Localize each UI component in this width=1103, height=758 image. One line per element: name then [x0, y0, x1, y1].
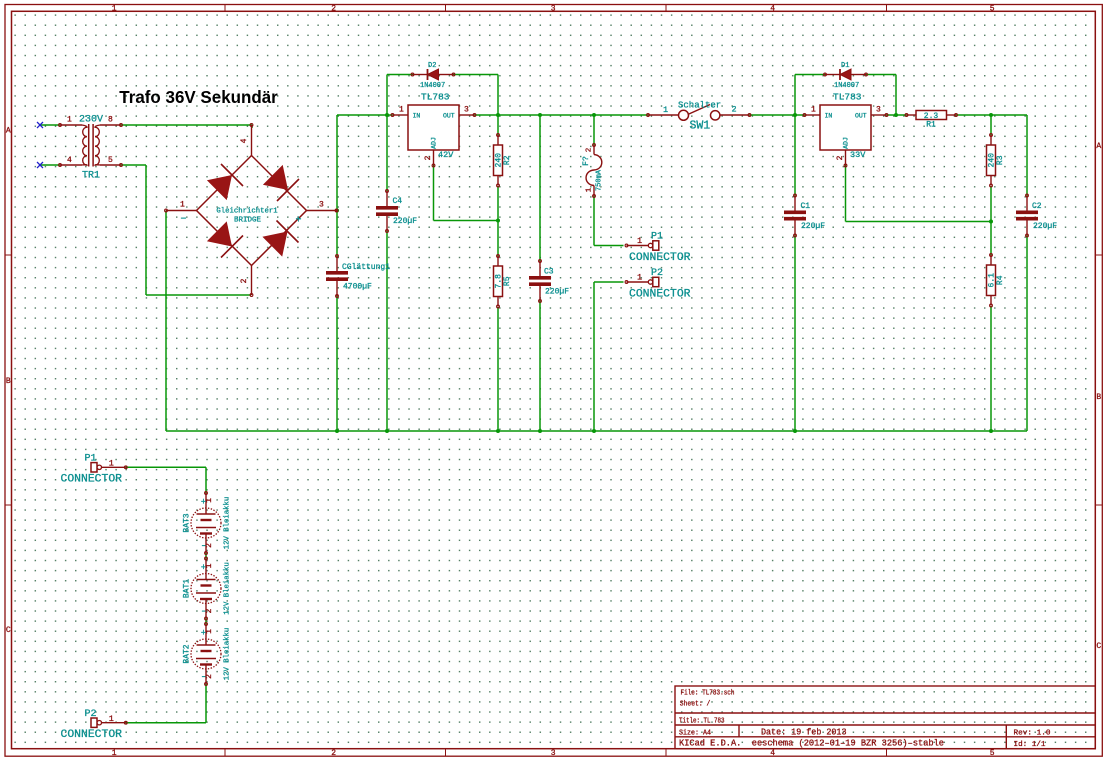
svg-text:5: 5: [108, 156, 113, 165]
junction at 991,431: [989, 429, 993, 433]
svg-text:Sheet: /: Sheet: /: [680, 701, 711, 709]
title block: [675, 686, 1095, 749]
svg-text:KICad E.D.A. eeschema (2012–0: KICad E.D.A. eeschema (2012–01–19 BZR 32…: [679, 739, 944, 749]
svg-text:A: A: [1096, 142, 1101, 151]
svg-text:IN: IN: [825, 113, 833, 120]
svg-text:1: 1: [180, 201, 185, 210]
svg-text:4700µF: 4700µF: [343, 283, 372, 292]
svg-text:42V: 42V: [438, 150, 454, 160]
svg-text:SW1: SW1: [690, 120, 711, 133]
regulator U1 TL783: [391, 92, 476, 167]
svg-text:Schalter: Schalter: [678, 101, 721, 111]
svg-text:220µF: 220µF: [1033, 222, 1057, 231]
wire bridge+ vertical column x337: [336, 115, 338, 256]
bridge diode top-left: [207, 175, 232, 200]
diode D2: [411, 62, 455, 90]
svg-text:1: 1: [112, 749, 117, 758]
svg-text:12V Bleiakku: 12V Bleiakku: [224, 628, 232, 681]
svg-text:1: 1: [399, 106, 404, 115]
svg-text:230V: 230V: [79, 115, 103, 126]
svg-text:2: 2: [586, 148, 594, 153]
svg-text:C3: C3: [544, 268, 554, 277]
junction at 594,431: [592, 429, 596, 433]
junction at 387,115: [385, 113, 389, 117]
wire C2 column x1027: [1026, 115, 1028, 196]
resistor R4: [987, 254, 1006, 307]
svg-text:1: 1: [811, 106, 816, 115]
svg-text:Id: 1/1: Id: 1/1: [1014, 741, 1046, 749]
svg-text:OUT: OUT: [443, 113, 455, 120]
svg-text:CONNECTOR: CONNECTOR: [629, 252, 691, 264]
svg-text:3: 3: [551, 749, 556, 758]
svg-text:1: 1: [67, 116, 72, 125]
junction at 991,221.5: [989, 220, 993, 224]
wire R3-R4 column x991: [990, 115, 992, 135]
junction at 540,115: [538, 113, 542, 117]
svg-text:4: 4: [240, 138, 249, 143]
svg-text:CONNECTOR: CONNECTOR: [61, 474, 123, 486]
wire D1/C1 column x795: [794, 75, 796, 116]
svg-text:IN: IN: [413, 113, 421, 120]
svg-text:R2: R2: [503, 155, 512, 165]
transformer TR1: [59, 115, 123, 182]
fuse F? 750mA: [582, 144, 604, 198]
svg-text:Trafo 36V Sekundär: Trafo 36V Sekundär: [119, 87, 278, 107]
svg-text:33V: 33V: [850, 150, 866, 160]
wire bridge minus column x166: [165, 211, 167, 432]
svg-text:3: 3: [464, 106, 469, 115]
svg-text:1: 1: [109, 459, 114, 469]
wire D1 top span: [795, 74, 825, 76]
svg-text:File: TL783.sch: File: TL783.sch: [681, 690, 735, 698]
wire D2 top span: [387, 74, 413, 76]
svg-text:2: 2: [424, 155, 433, 160]
svg-text:1: 1: [205, 498, 214, 503]
connector P1 left: [61, 454, 128, 486]
svg-text:1: 1: [663, 105, 668, 115]
wire TR1 pin5 to bridge pin2: [121, 164, 146, 166]
junction at 337,210.5: [335, 209, 339, 213]
svg-text:CONNECTOR: CONNECTOR: [61, 729, 123, 741]
connector P1 right: [625, 232, 691, 264]
svg-text:4: 4: [770, 749, 775, 758]
bridge diode top-right: [263, 165, 288, 190]
svg-text:5: 5: [990, 749, 995, 758]
svg-text:1: 1: [637, 273, 642, 283]
switch SW1: [647, 101, 751, 133]
wire TR1 primary stubs: [40, 124, 60, 126]
svg-text:B: B: [1096, 393, 1101, 402]
svg-text:ADJ: ADJ: [843, 137, 850, 149]
svg-text:1N4007: 1N4007: [834, 82, 859, 90]
capacitor C4: [376, 190, 417, 233]
wire C3 column x540: [539, 115, 541, 261]
svg-text:8: 8: [108, 116, 113, 125]
svg-text:2: 2: [331, 749, 336, 758]
svg-text:C1: C1: [801, 202, 811, 211]
junction at 498,220.5: [496, 219, 500, 223]
svg-text:OUT: OUT: [855, 113, 867, 120]
resistor R3: [987, 134, 1006, 187]
svg-text:Size: A4: Size: A4: [679, 729, 711, 737]
svg-text:2: 2: [331, 5, 336, 14]
svg-text:4: 4: [770, 5, 775, 14]
wire battery chain P2 side: [205, 684, 207, 723]
svg-text:P1: P1: [651, 232, 663, 243]
svg-text:BRIDGE: BRIDGE: [234, 217, 262, 225]
wire main top rail: [337, 114, 393, 116]
svg-text:1: 1: [205, 563, 214, 568]
capacitor C2: [1016, 194, 1057, 237]
bridge rectifier Gleichrichter1: [165, 124, 338, 297]
svg-text:C: C: [6, 626, 11, 635]
junction at 387,431: [385, 429, 389, 433]
wire bottom rail: [166, 430, 1027, 432]
svg-text:B: B: [6, 377, 11, 386]
wire TL783#2 adj to divider: [845, 166, 847, 222]
svg-text:TL783: TL783: [833, 92, 862, 103]
svg-text:12V Bleiakku: 12V Bleiakku: [224, 497, 232, 550]
wire between BAT1 and BAT2: [205, 619, 207, 625]
svg-text:1: 1: [112, 5, 117, 14]
svg-text:1: 1: [205, 629, 214, 634]
svg-text:BAT1: BAT1: [183, 579, 192, 598]
svg-text:CGlättung1: CGlättung1: [342, 263, 390, 272]
wire TR1 pin8 to bridge pin4: [121, 124, 252, 126]
svg-text:1N4007: 1N4007: [420, 82, 445, 90]
junction at 795,431: [793, 429, 797, 433]
junction at 337,431: [335, 429, 339, 433]
svg-text:+: +: [296, 216, 302, 227]
svg-text:D2: D2: [428, 62, 436, 70]
capacitor CGlättung1: [326, 255, 390, 298]
svg-text:A: A: [6, 127, 11, 136]
svg-text:ADJ: ADJ: [431, 137, 438, 149]
svg-text:2: 2: [240, 278, 249, 283]
bridge diode bottom-left: [207, 221, 232, 246]
resistor R5: [494, 255, 513, 308]
wire C4/D2 column x387: [386, 75, 388, 192]
svg-text:1: 1: [586, 187, 594, 192]
svg-text:1: 1: [109, 714, 114, 724]
junction at 991,115: [989, 113, 993, 117]
no-connect X pin1: [37, 122, 43, 128]
capacitor C3: [529, 260, 569, 303]
svg-text:220µF: 220µF: [801, 222, 825, 231]
junction at 498,431: [496, 429, 500, 433]
svg-text:−: −: [181, 215, 187, 226]
junction at 540,431: [538, 429, 542, 433]
svg-text:2: 2: [205, 608, 214, 613]
svg-text:CONNECTOR: CONNECTOR: [629, 288, 691, 300]
svg-text:2: 2: [732, 105, 737, 115]
svg-text:5: 5: [990, 5, 995, 14]
wire fuse column x594: [593, 115, 595, 145]
regulator U2 TL783: [803, 92, 888, 167]
svg-text:2: 2: [205, 674, 214, 679]
svg-text:2: 2: [205, 543, 214, 548]
svg-text:C4: C4: [393, 197, 403, 206]
bridge diode bottom-right: [262, 232, 287, 257]
diode D1: [824, 62, 868, 90]
svg-text:12V Bleiakku: 12V Bleiakku: [224, 562, 232, 615]
svg-text:BAT3: BAT3: [183, 513, 192, 532]
svg-text:R3: R3: [996, 155, 1005, 165]
resistor R1: [905, 111, 957, 130]
svg-text:2: 2: [836, 155, 845, 160]
wire P2 feed: [594, 281, 624, 283]
battery BAT2: [183, 623, 232, 686]
connector P2 right: [625, 268, 691, 300]
svg-text:1: 1: [637, 236, 642, 246]
svg-text:750mA: 750mA: [596, 169, 604, 191]
svg-text:Title: TL 783: Title: TL 783: [679, 717, 725, 725]
svg-text:3: 3: [319, 201, 324, 210]
resistor R2: [494, 134, 513, 187]
svg-text:4: 4: [67, 156, 72, 165]
svg-text:D1: D1: [841, 62, 849, 70]
capacitor C1: [784, 194, 825, 237]
svg-text:P1: P1: [85, 454, 97, 465]
svg-text:Gleichrichter1: Gleichrichter1: [216, 208, 278, 216]
wire battery chain P1 side: [126, 466, 206, 468]
junction at 594,115: [592, 113, 596, 117]
svg-text:3: 3: [876, 106, 881, 115]
svg-text:R1: R1: [926, 121, 936, 130]
junction at 498,115: [496, 113, 500, 117]
svg-text:R5: R5: [503, 276, 512, 286]
svg-text:220µF: 220µF: [545, 288, 569, 297]
svg-text:P2: P2: [85, 709, 97, 720]
svg-text:P2: P2: [651, 268, 663, 279]
no-connect X pin4: [37, 162, 43, 168]
wire TL783#1 adj to divider: [433, 166, 435, 221]
svg-text:Date: 19 feb 2013: Date: 19 feb 2013: [761, 727, 847, 737]
svg-text:220µF: 220µF: [393, 217, 417, 226]
wire between BAT3 and BAT1: [205, 553, 207, 559]
junction at 896,115: [894, 113, 898, 117]
svg-text:TR1: TR1: [82, 171, 100, 182]
svg-text:3: 3: [551, 5, 556, 14]
svg-text:C2: C2: [1032, 202, 1042, 211]
svg-text:R4: R4: [996, 275, 1005, 285]
svg-text:C: C: [1096, 642, 1101, 651]
svg-text:F?: F?: [582, 156, 591, 166]
battery BAT3: [183, 492, 232, 555]
svg-text:BAT2: BAT2: [183, 644, 192, 663]
junction at 795,115: [793, 113, 797, 117]
connector P2 left: [61, 709, 128, 741]
battery BAT1: [183, 557, 232, 620]
svg-text:Rev: 1.0: Rev: 1.0: [1014, 729, 1051, 737]
wire R2-R5 column x498: [497, 115, 499, 135]
svg-text:TL783: TL783: [421, 92, 450, 103]
